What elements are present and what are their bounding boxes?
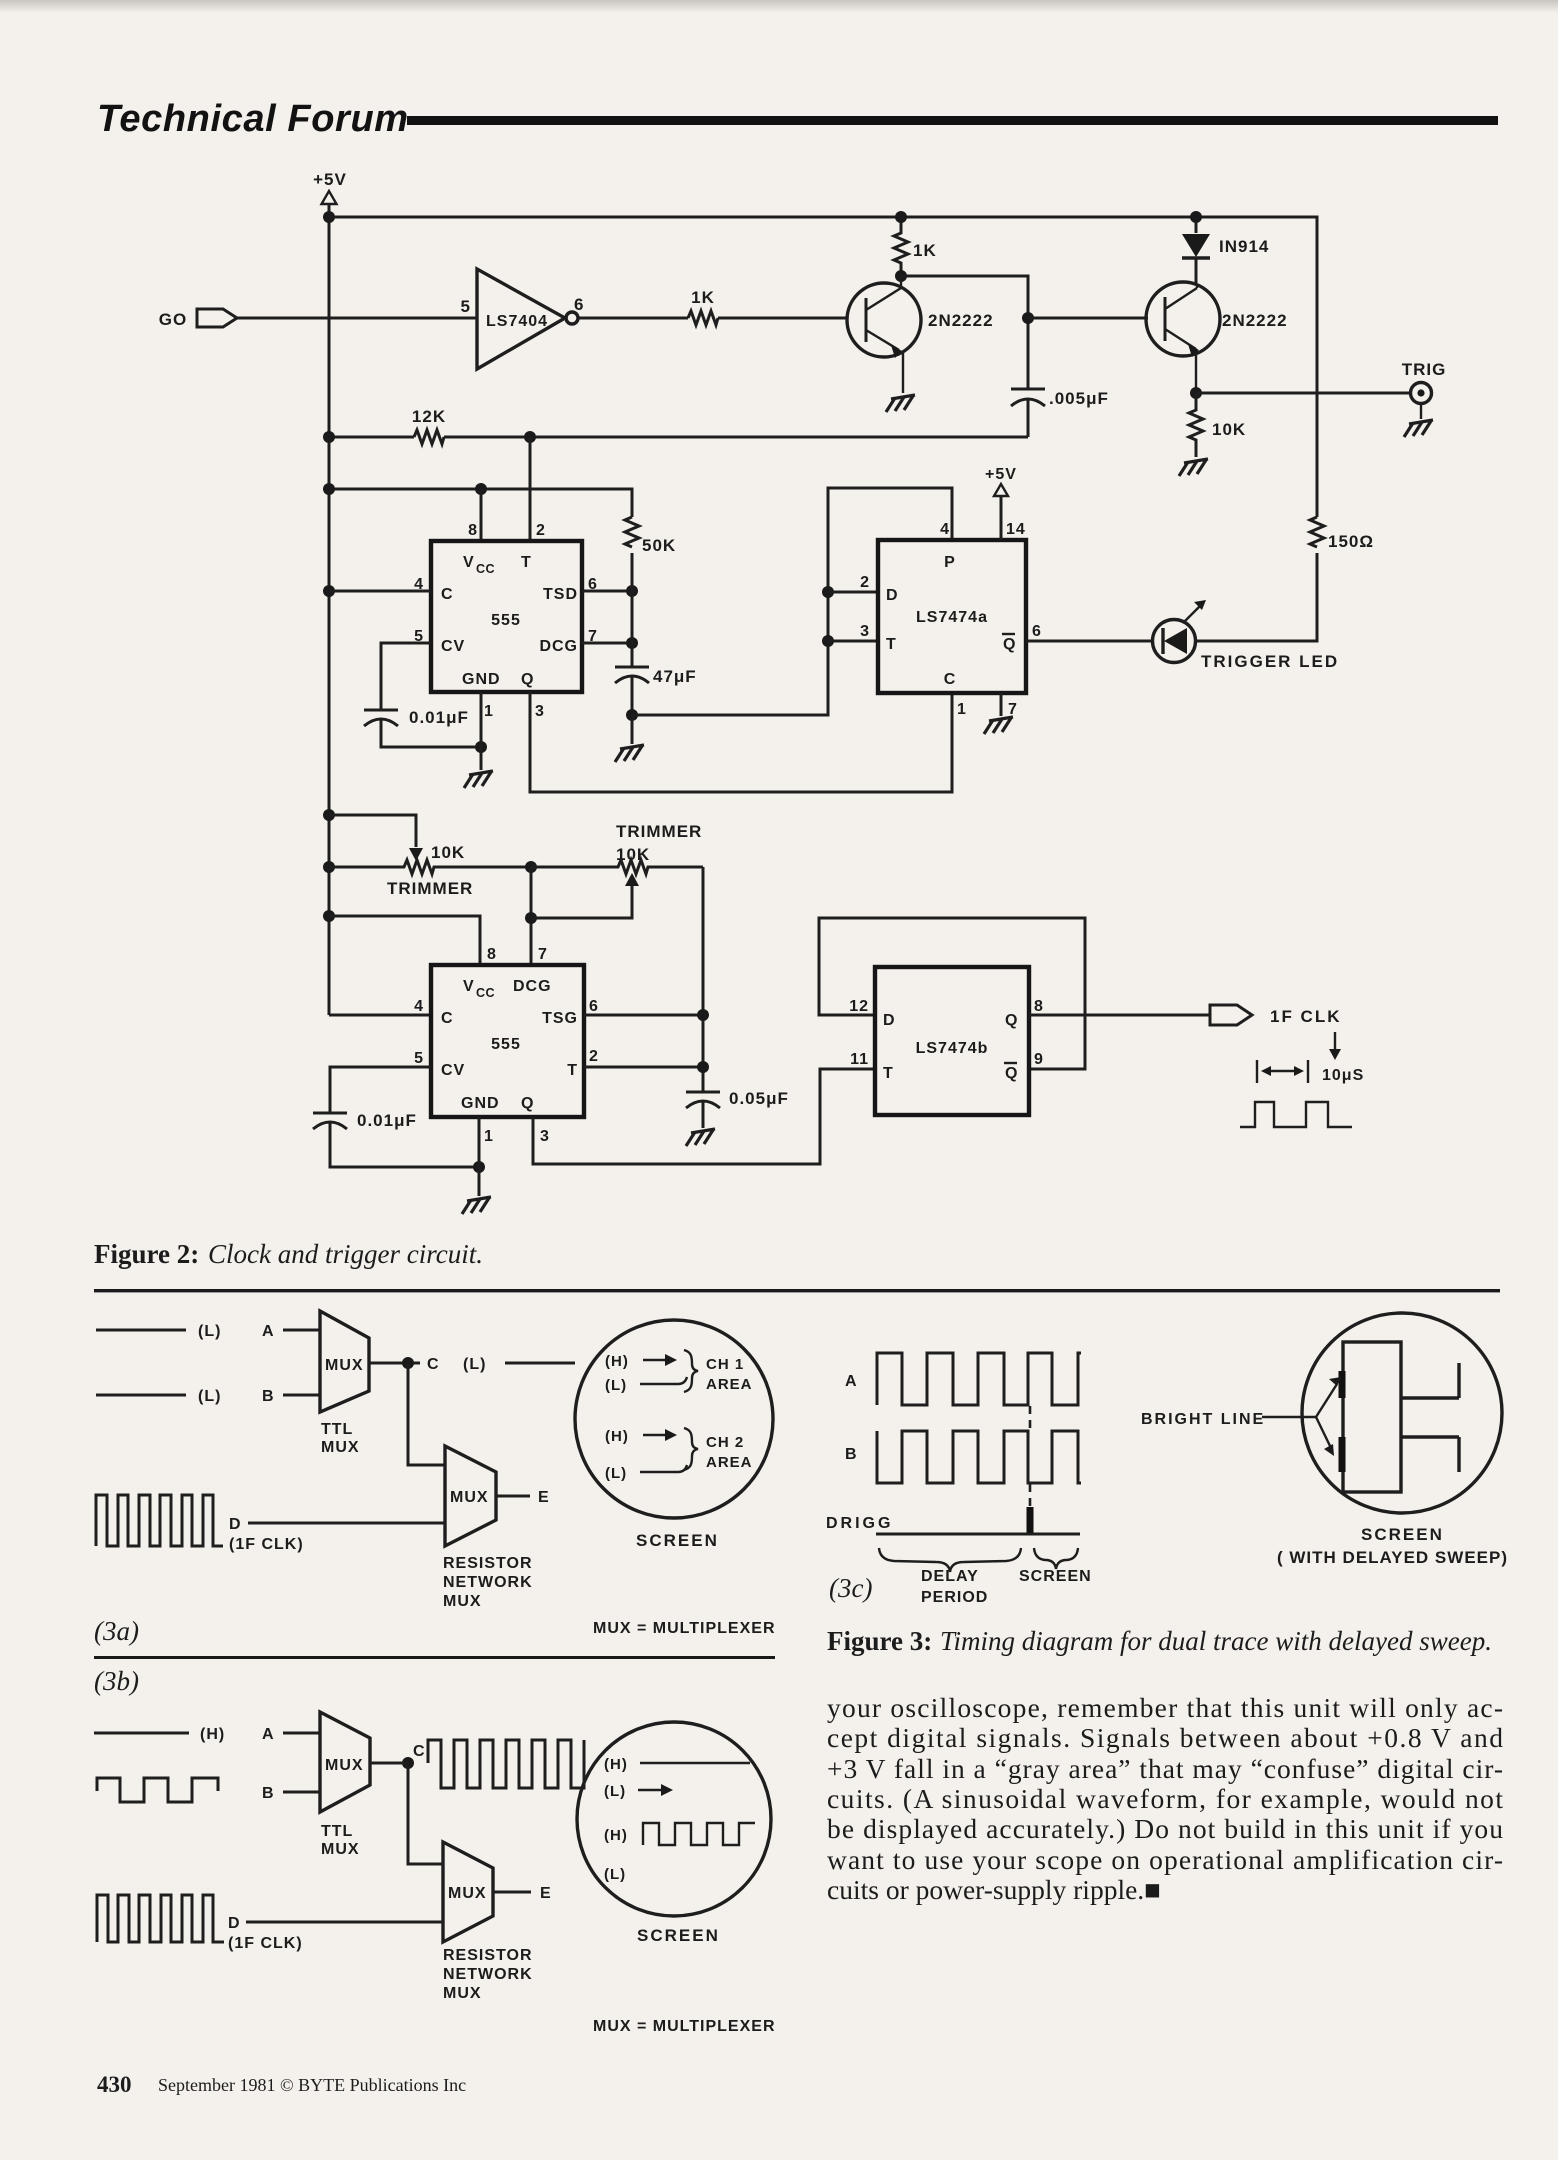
svg-text:IN914: IN914 [1219, 237, 1269, 256]
svg-text:(L): (L) [604, 1783, 626, 1800]
wire: E output (3a) [496, 1489, 550, 1506]
capacitor C3 47uF [615, 667, 697, 715]
svg-text:D: D [228, 1915, 241, 1932]
svg-text:CC: CC [476, 986, 495, 1000]
wire: MUX out to C (3b) [370, 1762, 408, 1765]
svg-text:Q: Q [1005, 1012, 1018, 1029]
svg-text:0.01μF: 0.01μF [357, 1111, 417, 1130]
svg-text:CV: CV [441, 638, 465, 655]
TTL MUX (3a) [320, 1311, 369, 1456]
wire: D to resistor MUX (3b) [246, 1921, 443, 1924]
svg-text:0.01μF: 0.01μF [409, 708, 469, 727]
flip-flop U5 LS7474b body [875, 967, 1029, 1115]
svg-text:DELAY: DELAY [921, 1568, 979, 1585]
svg-text:.005μF: .005μF [1049, 389, 1109, 408]
+5V supply symbol [313, 170, 347, 204]
resistor R7 12K [412, 407, 446, 444]
svg-text:MUX: MUX [321, 1841, 360, 1858]
svg-text:cuits. (A sinusoidal waveform,: cuits. (A sinusoidal waveform, for examp… [827, 1783, 1503, 1814]
svg-text:DCG: DCG [513, 978, 552, 995]
brace CH2 [684, 1428, 698, 1470]
resistor R5 150-ohm [1310, 517, 1374, 551]
svg-text:10K: 10K [431, 843, 465, 862]
svg-text:(H): (H) [605, 1353, 629, 1370]
svg-text:(3b): (3b) [94, 1666, 139, 1696]
H trace outline [1343, 1342, 1459, 1492]
wire: MUX output to node C [369, 1362, 420, 1365]
svg-text:(H): (H) [604, 1756, 628, 1773]
svg-text:E: E [540, 1885, 552, 1902]
svg-text:T: T [567, 1062, 578, 1079]
waveform D input (3b) [97, 1895, 224, 1942]
svg-text:3: 3 [535, 703, 545, 720]
svg-text:LS7474a: LS7474a [916, 609, 988, 626]
svg-text:2: 2 [860, 574, 870, 591]
svg-text:E: E [538, 1489, 550, 1506]
node: loop at U3 pin2 D [822, 586, 834, 598]
svg-text:V: V [463, 978, 475, 995]
baseline (3c) [876, 1533, 1080, 1536]
svg-text:C: C [427, 1356, 440, 1373]
node: 50K column at TSD [626, 585, 638, 597]
node: GND net junction below C1 [475, 741, 487, 753]
wire: C3 junction to U3 feedback loop and pin4 [632, 488, 952, 715]
wire: U4 pin7 DCG riser [530, 867, 533, 965]
wire: riser to 555a pin2 [529, 437, 532, 541]
svg-text:0.05μF: 0.05μF [729, 1089, 789, 1108]
svg-text:CH 1: CH 1 [706, 1356, 744, 1373]
wire: rail to U2 pin4 C [329, 590, 431, 593]
node: loop at U3 pin3 T [822, 635, 834, 647]
capacitor C1 0.01uF [364, 708, 477, 747]
svg-text:12K: 12K [412, 407, 446, 426]
svg-text:SCREEN: SCREEN [636, 1531, 719, 1550]
svg-text:CH 2: CH 2 [706, 1434, 744, 1451]
wire: riser to 555a pin8 [480, 489, 483, 541]
wire: E output (3b) [493, 1885, 552, 1902]
annotation CH2 (H) row [605, 1428, 677, 1445]
svg-text:SCREEN: SCREEN [1019, 1568, 1092, 1585]
svg-text:NETWORK: NETWORK [443, 1966, 533, 1983]
svg-text:(L): (L) [605, 1465, 627, 1482]
resistor R4 50K [625, 517, 676, 555]
node B input line (3a) [96, 1394, 186, 1397]
svg-text:5: 5 [461, 297, 471, 316]
svg-text:LS7474b: LS7474b [916, 1040, 989, 1057]
annotation CH 1 AREA [706, 1356, 753, 1393]
svg-text:DRIGG: DRIGG [826, 1515, 893, 1532]
TRIG output connector [1402, 360, 1447, 419]
node: C3 bottom junction [626, 709, 638, 721]
svg-text:Timing diagram for dual trace: Timing diagram for dual trace with delay… [940, 1626, 1492, 1656]
svg-text:B: B [845, 1446, 858, 1463]
rule below 3a [94, 1656, 775, 1659]
svg-text:+5V: +5V [313, 170, 347, 189]
svg-text:14: 14 [1006, 521, 1026, 538]
wire: C line to screen [505, 1362, 575, 1365]
node: right column at T [697, 1061, 709, 1073]
wire: U2 pin3 Q down and right to U3 pin1 C [530, 692, 952, 792]
svg-text:4: 4 [940, 521, 950, 538]
svg-text:3: 3 [540, 1128, 550, 1145]
waveform D input (3a) [96, 1495, 223, 1546]
transistor Q1 2N2222 [847, 276, 994, 393]
svg-text:1: 1 [957, 701, 967, 718]
transistor Q2 2N2222 [1146, 282, 1288, 393]
svg-text:TTL: TTL [321, 1421, 353, 1438]
svg-text:CC: CC [476, 562, 495, 576]
node C junction (3b) [402, 1757, 414, 1769]
ground below R3 [1179, 459, 1208, 476]
svg-text:RESISTOR: RESISTOR [443, 1555, 533, 1572]
svg-text:10K: 10K [1212, 420, 1246, 439]
node: +5V top junction [323, 211, 335, 223]
wire: U4 pin1 GND down [478, 1117, 481, 1196]
annotation (H) waveform row (3b) [604, 1823, 755, 1845]
svg-text:C: C [944, 671, 957, 688]
svg-text:Clock and trigger circuit.: Clock and trigger circuit. [208, 1239, 483, 1269]
screen circle (3c) [1302, 1313, 1502, 1513]
svg-text:(3a): (3a) [94, 1616, 139, 1646]
svg-text:MUX = MULTIPLEXER: MUX = MULTIPLEXER [593, 1620, 776, 1637]
wire: U2 pin7 DCG to 50K column [582, 642, 632, 645]
annotation SCREEN (WITH DELAYED SWEEP) [1277, 1525, 1508, 1567]
svg-text:Figure 3:: Figure 3: [827, 1626, 932, 1656]
wire: loop to U3 pin2 D [828, 591, 878, 594]
flip-flop U3 LS7474a body [878, 540, 1026, 693]
wire: top +5V rail horizontal to right column [329, 217, 1317, 517]
svg-text:6: 6 [1032, 623, 1042, 640]
wire: U3 pin7 to ground [984, 693, 1013, 734]
svg-text:2N2222: 2N2222 [1222, 311, 1288, 330]
svg-text:(L): (L) [605, 1377, 627, 1394]
svg-text:SCREEN: SCREEN [1361, 1525, 1444, 1544]
svg-text:2: 2 [536, 522, 546, 539]
node D label (3a) [229, 1516, 304, 1553]
svg-text:150Ω: 150Ω [1328, 532, 1374, 551]
svg-text:D: D [886, 587, 899, 604]
svg-text:MUX: MUX [450, 1489, 489, 1506]
svg-text:2: 2 [589, 1048, 599, 1065]
brace CH1 [684, 1350, 698, 1392]
svg-text:555: 555 [491, 612, 521, 629]
screen circle (3a) [575, 1320, 773, 1518]
svg-text:AREA: AREA [706, 1454, 753, 1471]
wire: loop to U3 pin3 T [828, 640, 878, 643]
svg-text:B: B [262, 1785, 275, 1802]
wire: R8 wiper to DCG riser [531, 886, 632, 918]
svg-text:555: 555 [491, 1036, 521, 1053]
trigger tick (3c) [1027, 1507, 1034, 1533]
wire: inverter output to R2 [579, 317, 688, 320]
trimmer resistor R8 10K [531, 822, 703, 874]
wire: 12K rail [329, 436, 1028, 439]
node: trimmer row at DCG riser [525, 861, 537, 873]
svg-text:(H): (H) [604, 1827, 628, 1844]
wire: R2 to Q1 base [718, 317, 848, 320]
wire: U4 pin5 CV to C5 [330, 1067, 431, 1113]
node D label (3b) [228, 1915, 303, 1952]
wire: 50K column down to C3 [631, 553, 634, 667]
resistor network MUX (3a) [443, 1446, 533, 1610]
svg-text:47μF: 47μF [653, 667, 697, 686]
wire: Q2 emitter to TRIG [1196, 392, 1411, 395]
node: R1/Q1 collector junction [895, 270, 907, 282]
wire: rail to R6 wiper [329, 815, 416, 847]
annotation CH 2 AREA [706, 1434, 753, 1471]
svg-text:2N2222: 2N2222 [928, 311, 994, 330]
svg-text:(H): (H) [200, 1726, 225, 1743]
svg-text:V: V [463, 554, 475, 571]
annotation CH1 (H) row [605, 1353, 677, 1370]
svg-text:cuits or power-supply ripple.■: cuits or power-supply ripple.■ [827, 1874, 1161, 1905]
svg-text:8: 8 [1034, 998, 1044, 1015]
svg-text:C: C [413, 1743, 426, 1760]
wire: U4 pin2 T to right column [584, 1066, 703, 1069]
svg-text:5: 5 [414, 1050, 424, 1067]
capacitor C5 0.01uF [313, 1111, 476, 1167]
svg-text:Q: Q [1003, 636, 1016, 653]
resistor R2 1K [688, 288, 718, 325]
svg-text:(L): (L) [604, 1866, 626, 1883]
ground for TRIG connector [1404, 420, 1433, 437]
wire: B to TTL MUX (3b) [283, 1791, 320, 1794]
annotation: clock waveform [1240, 1102, 1352, 1127]
svg-text:6: 6 [574, 295, 584, 314]
svg-text:(L): (L) [463, 1356, 486, 1373]
diode D1 IN914 [1182, 217, 1269, 284]
svg-text:TRIMMER: TRIMMER [387, 879, 473, 898]
+5V supply for U3 pin14 [985, 466, 1017, 540]
svg-text:7: 7 [538, 946, 548, 963]
svg-text:C: C [441, 586, 454, 603]
svg-text:9: 9 [1034, 1051, 1044, 1068]
svg-text:(3c): (3c) [829, 1573, 872, 1603]
svg-text:10K: 10K [616, 845, 650, 864]
wire: junction to Q2 base [1028, 317, 1148, 320]
svg-text:MUX: MUX [443, 1985, 482, 2002]
svg-text:TRIMMER: TRIMMER [616, 822, 702, 841]
wire: trimmer row right column down [702, 867, 705, 1092]
svg-text:CV: CV [441, 1062, 465, 1079]
svg-text:MUX = MULTIPLEXER: MUX = MULTIPLEXER [593, 2018, 776, 2035]
svg-text:12: 12 [849, 998, 869, 1015]
svg-text:C: C [441, 1010, 454, 1027]
svg-text:LS7404: LS7404 [486, 313, 548, 330]
waveform B input (3b) [97, 1778, 218, 1802]
annotation DELAY PERIOD [921, 1568, 988, 1606]
svg-text:(H): (H) [605, 1428, 629, 1445]
waveform B (3c) [877, 1431, 1081, 1483]
node: Vcc riser junction [475, 483, 487, 495]
svg-text:A: A [262, 1726, 275, 1743]
svg-text:Q: Q [521, 671, 534, 688]
wire: Q1 collector to C2 top [901, 276, 1028, 389]
svg-text:1F CLK: 1F CLK [1270, 1007, 1342, 1026]
svg-text:GND: GND [462, 671, 501, 688]
svg-text:your oscilloscope, remember th: your oscilloscope, remember that this un… [827, 1692, 1503, 1723]
caption Figure 3 [827, 1626, 1492, 1656]
svg-text:TRIG: TRIG [1402, 360, 1447, 379]
ground below C6 [686, 1129, 715, 1146]
svg-text:AREA: AREA [706, 1376, 753, 1393]
svg-text:6: 6 [589, 998, 599, 1015]
node: right column at TSG [697, 1009, 709, 1021]
capacitor C6 0.05uF [686, 1089, 789, 1128]
svg-text:TTL: TTL [321, 1823, 353, 1840]
node: rail at trimmer row [323, 861, 335, 873]
LED D2 trigger indicator [1153, 600, 1340, 671]
bright line upper segment [1339, 1371, 1346, 1398]
wire: A to TTL MUX (3b) [283, 1732, 320, 1735]
svg-text:BRIGHT LINE: BRIGHT LINE [1141, 1411, 1265, 1428]
svg-text:RESISTOR: RESISTOR [443, 1947, 533, 1964]
wire: U4 pin6 TSG to right column [584, 1014, 703, 1017]
node: 12K rail at T pin riser [524, 431, 536, 443]
annotation: clock period arrow [1257, 1032, 1364, 1084]
wire: U5 pin8 Q to output [1029, 1014, 1210, 1017]
node A input line (3a) [96, 1329, 186, 1332]
svg-text:GO: GO [159, 310, 187, 329]
svg-text:cept digital signals. Signals: cept digital signals. Signals between ab… [827, 1722, 1503, 1753]
svg-text:T: T [883, 1065, 894, 1082]
node: rail at y489 [323, 483, 335, 495]
svg-text:September 1981 © BYTE Publicat: September 1981 © BYTE Publications Inc [158, 2075, 466, 2095]
svg-text:MUX: MUX [325, 1757, 364, 1774]
wire: rail to U4 pin4 C [329, 1014, 431, 1017]
svg-text:1K: 1K [913, 241, 937, 260]
node: top rail at D1 [1190, 211, 1202, 223]
svg-text:be displayed accurately.) Do n: be displayed accurately.) Do not build i… [827, 1813, 1503, 1844]
paragraph text column [827, 1692, 1503, 1905]
TTL MUX (3b) [320, 1712, 370, 1858]
svg-text:GND: GND [461, 1095, 500, 1112]
svg-text:11: 11 [850, 1051, 869, 1068]
svg-text:(1F CLK): (1F CLK) [229, 1536, 304, 1553]
svg-text:(L): (L) [198, 1388, 221, 1405]
svg-text:A: A [845, 1373, 858, 1390]
svg-text:MUX: MUX [321, 1439, 360, 1456]
svg-text:MUX: MUX [448, 1885, 487, 1902]
svg-text:(L): (L) [198, 1323, 221, 1340]
resistor R3 10K [1189, 393, 1246, 457]
svg-text:A: A [262, 1323, 275, 1340]
svg-text:TSG: TSG [542, 1010, 578, 1027]
wire: B to TTL MUX [283, 1394, 320, 1397]
wire: U2 pin1 GND down [480, 692, 483, 770]
svg-text:8: 8 [487, 946, 497, 963]
svg-text:1: 1 [484, 1128, 494, 1145]
svg-text:T: T [886, 636, 897, 653]
wire: U3 pin6 Qbar to LED [1026, 640, 1153, 643]
svg-text:7: 7 [1008, 701, 1018, 718]
dashed trigger line (3c) [1029, 1406, 1032, 1507]
timer U2 555 body [431, 541, 582, 692]
wire: right column below 150-ohm down to LED line [1196, 553, 1317, 641]
resistor network MUX (3b) [443, 1842, 533, 2002]
svg-text:( WITH DELAYED SWEEP): ( WITH DELAYED SWEEP) [1277, 1548, 1508, 1567]
waveform C output (3b) [428, 1740, 584, 1788]
brace screen [1034, 1548, 1078, 1569]
svg-text:10μS: 10μS [1322, 1067, 1364, 1084]
svg-text:(1F CLK): (1F CLK) [228, 1935, 303, 1952]
svg-text:T: T [521, 554, 532, 571]
svg-text:Q: Q [521, 1095, 534, 1112]
ground for U2 pin1 [464, 771, 493, 788]
op-amp U1 inverter LS7404 [461, 269, 585, 369]
svg-text:50K: 50K [642, 536, 676, 555]
bright line lower segment [1339, 1437, 1346, 1472]
node: 50K column at DCG [626, 637, 638, 649]
capacitor C2 .005uF [1011, 389, 1109, 437]
node A input line (3b) [94, 1732, 189, 1735]
wire: GO to inverter input [237, 317, 477, 320]
wire: +5V row to 555a Vcc and 50K [329, 489, 632, 517]
svg-text:MUX: MUX [325, 1357, 364, 1374]
annotation (H) line row (3b) [604, 1756, 750, 1773]
svg-text:3: 3 [860, 623, 870, 640]
node: U4 GND junction [473, 1161, 485, 1173]
svg-text:NETWORK: NETWORK [443, 1574, 533, 1591]
wire: U4 pin3 Q to U5 pin11 T [533, 1069, 875, 1164]
wire: C down to resistor MUX (3b) [408, 1763, 443, 1864]
node: rail at wiper row [323, 809, 335, 821]
svg-text:Q: Q [1005, 1065, 1018, 1082]
node: Q2 emitter junction [1190, 387, 1202, 399]
svg-text:430: 430 [97, 2072, 132, 2097]
svg-text:TRIGGER LED: TRIGGER LED [1201, 652, 1339, 671]
annotation (L) arrow row (3b) [604, 1783, 673, 1800]
wire: rail to U4 pin8 Vcc [329, 916, 480, 965]
svg-text:SCREEN: SCREEN [637, 1926, 720, 1945]
node: C2/Q2 base junction [1022, 312, 1034, 324]
svg-text:B: B [262, 1388, 275, 1405]
svg-text:TSD: TSD [543, 586, 578, 603]
waveform A (3c) [877, 1353, 1081, 1405]
svg-text:8: 8 [468, 522, 478, 539]
wiper arrow of R6 [409, 848, 423, 861]
wire: A to TTL MUX [283, 1329, 320, 1332]
svg-text:P: P [944, 554, 956, 571]
output connector 1F CLK [1210, 1005, 1342, 1026]
resistor R1 1K (collector pull-up) [894, 217, 937, 276]
annotation CH2 (L) row [605, 1465, 687, 1482]
wiper arrow of R8 [625, 873, 639, 886]
wire: D to resistor MUX [248, 1522, 445, 1525]
svg-text:Figure 2:: Figure 2: [94, 1239, 199, 1269]
svg-text:D: D [229, 1516, 242, 1533]
brace delay period [879, 1548, 1021, 1572]
node C junction (3a) [402, 1357, 414, 1369]
wire: U2 pin5 CV to C1 [381, 643, 431, 710]
ground below C3 [615, 715, 644, 762]
wire: C down to resistor MUX [408, 1363, 445, 1465]
svg-text:PERIOD: PERIOD [921, 1589, 988, 1606]
screen circle (3b) [577, 1722, 771, 1916]
svg-text:DCG: DCG [539, 638, 578, 655]
svg-text:want to use your scope on oper: want to use your scope on operational am… [827, 1844, 1503, 1875]
svg-text:1: 1 [484, 703, 494, 720]
node: rail at C pin row [323, 585, 335, 597]
svg-text:1K: 1K [691, 288, 715, 307]
rule below figure 2 [94, 1289, 1500, 1292]
annotation BRIGHT LINE with arrows [1141, 1377, 1341, 1456]
node: top rail at R1 [895, 211, 907, 223]
svg-text:MUX: MUX [443, 1593, 482, 1610]
svg-text:D: D [883, 1012, 896, 1029]
ground for Q1 emitter [886, 395, 915, 412]
svg-text:+3 V fall in a “gray area” tha: +3 V fall in a “gray area” that may “con… [827, 1753, 1503, 1784]
